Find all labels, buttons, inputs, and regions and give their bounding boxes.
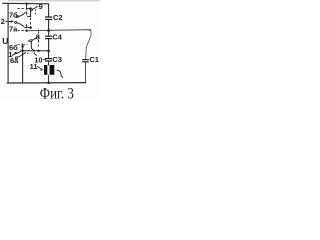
node dot at C4 rail <box>47 29 50 32</box>
contact 6b lead right <box>23 44 27 46</box>
transducer 11 membrane curve <box>57 70 64 77</box>
wire: C4 to node <box>48 39 50 51</box>
dash after 10 <box>43 59 46 61</box>
capacitor C3 top plate <box>45 58 52 60</box>
svg-text:2: 2 <box>1 17 5 26</box>
linkage vertical 7a dashed part <box>30 18 32 31</box>
switch 10 pivot <box>15 57 17 59</box>
arrow 11 line <box>37 66 42 69</box>
node dot rail row <box>21 50 23 52</box>
capacitor C1 bottom plate <box>82 61 89 63</box>
svg-text:9: 9 <box>39 2 43 11</box>
svg-text:7а: 7а <box>9 25 18 34</box>
bottom rail <box>7 82 86 84</box>
contact 6b fixed tick <box>22 43 24 47</box>
wire: C3 to transducer <box>48 61 50 65</box>
contact 7b second lead <box>27 15 31 17</box>
contact 7a fixed tick <box>26 24 28 28</box>
switch 8 pivot <box>30 40 32 42</box>
capacitor C3 bottom plate <box>45 60 52 62</box>
right rail upper <box>85 30 91 59</box>
wire: top horizontal bus <box>2 2 49 5</box>
arrow 1 line <box>12 53 17 56</box>
node dot switch 10 <box>37 50 39 52</box>
wire: C2 to bus <box>48 19 50 31</box>
svg-text:C3: C3 <box>52 55 62 64</box>
switch 10 dashed linkage <box>24 52 29 54</box>
contact 7a dashed linkage <box>17 30 26 32</box>
node dot on top bus <box>25 2 27 4</box>
switch 10 arm <box>17 52 26 57</box>
contact 6b dashed linkage <box>18 44 22 46</box>
node dot C3 top <box>47 50 50 53</box>
arrow 2 line <box>5 20 12 22</box>
capacitor C1 top plate <box>82 59 89 61</box>
node dot on bottom rail <box>47 82 50 85</box>
contact 7a pivot <box>15 21 17 23</box>
capacitor C4 bottom plate <box>45 38 52 40</box>
contact 6b arm <box>15 50 22 54</box>
node dot 7b output <box>29 7 31 9</box>
node dot 7a output <box>29 26 31 28</box>
label 10 leader <box>34 52 37 56</box>
node dot on bus left <box>25 30 27 32</box>
svg-text:11: 11 <box>30 62 38 71</box>
contact 7b pivot <box>16 16 18 18</box>
arrow 1 head <box>14 52 17 55</box>
switch 9 pivot <box>30 9 32 11</box>
transducer 11 left bar <box>44 65 47 75</box>
wire: drop from top bus to C2 <box>48 4 50 17</box>
wire: bus to C4 <box>48 31 50 37</box>
switch 8 arm <box>32 37 38 41</box>
contact 7b dashed linkage <box>17 8 25 10</box>
contact 7a arm <box>16 23 24 27</box>
svg-text:C2: C2 <box>53 13 63 22</box>
faint page edge line top <box>8 0 100 2</box>
arrow 11 head <box>40 68 44 70</box>
node dot 6b <box>21 45 23 47</box>
linkage vertical 7b solid part <box>30 9 32 17</box>
arrow 2 head <box>11 20 14 23</box>
switch 9 linkage dashes <box>34 9 36 14</box>
wire: left vertical rail <box>7 3 9 83</box>
svg-text:C1: C1 <box>89 55 99 64</box>
capacitor C2 bottom plate <box>45 18 52 20</box>
svg-text:U: U <box>2 36 8 46</box>
contact 7b fixed tick <box>26 11 28 15</box>
svg-text:C4: C4 <box>52 32 62 41</box>
center-left vertical rail <box>22 47 24 84</box>
wire: node to C3 <box>48 51 50 59</box>
horizontal mid bus <box>27 30 91 31</box>
row wire 6b node to C3 node <box>23 50 49 52</box>
switch 9 arm <box>32 6 38 9</box>
svg-text:Фиг. 3: Фиг. 3 <box>40 85 74 99</box>
transducer 11 stub to rail <box>48 75 50 83</box>
contact 7b arm <box>18 12 26 16</box>
switch 10 link wire from switch 8 <box>31 42 35 51</box>
capacitor C4 top plate <box>45 35 52 37</box>
switch 8 linkage dashes <box>38 31 40 46</box>
capacitor C2 top plate <box>45 16 52 18</box>
svg-text:7б: 7б <box>9 10 18 19</box>
contact 7b output lead <box>27 8 32 10</box>
contact 7b drop tick from top bus <box>26 4 28 11</box>
switch 8 lead stub <box>28 40 30 42</box>
contact 7a output lead <box>24 27 31 29</box>
transducer 11 right bar <box>50 65 55 75</box>
wire: C1 to bottom rail <box>85 62 87 83</box>
